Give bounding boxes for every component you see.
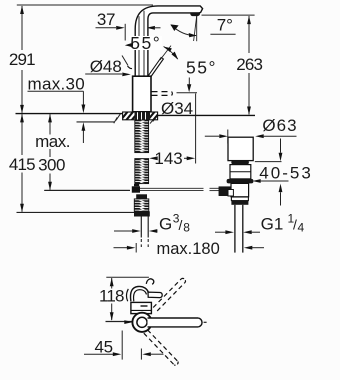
svg-text:4: 4 — [298, 221, 305, 235]
svg-text:40-53: 40-53 — [259, 164, 312, 183]
svg-text:Ø48: Ø48 — [90, 57, 122, 76]
svg-text:55°: 55° — [130, 33, 161, 53]
svg-text:Ø34: Ø34 — [161, 99, 193, 118]
svg-text:Ø63: Ø63 — [262, 116, 297, 135]
svg-text:max.30: max.30 — [28, 75, 86, 94]
svg-text:G1: G1 — [261, 215, 284, 234]
svg-text:37: 37 — [97, 10, 115, 29]
svg-text:45: 45 — [95, 337, 113, 356]
svg-text:55°: 55° — [186, 58, 217, 78]
svg-text:/: / — [293, 217, 297, 233]
svg-text:G: G — [159, 215, 172, 234]
svg-text:/: / — [179, 217, 183, 233]
svg-text:143: 143 — [154, 149, 182, 168]
svg-text:8: 8 — [183, 221, 190, 235]
svg-text:263: 263 — [236, 55, 262, 74]
svg-text:118: 118 — [99, 287, 124, 306]
svg-text:7°: 7° — [217, 16, 233, 35]
svg-text:max.: max. — [35, 132, 70, 151]
svg-text:max.180: max.180 — [157, 240, 220, 258]
svg-text:415: 415 — [9, 155, 35, 174]
svg-text:300: 300 — [38, 156, 65, 175]
svg-text:291: 291 — [9, 50, 35, 69]
